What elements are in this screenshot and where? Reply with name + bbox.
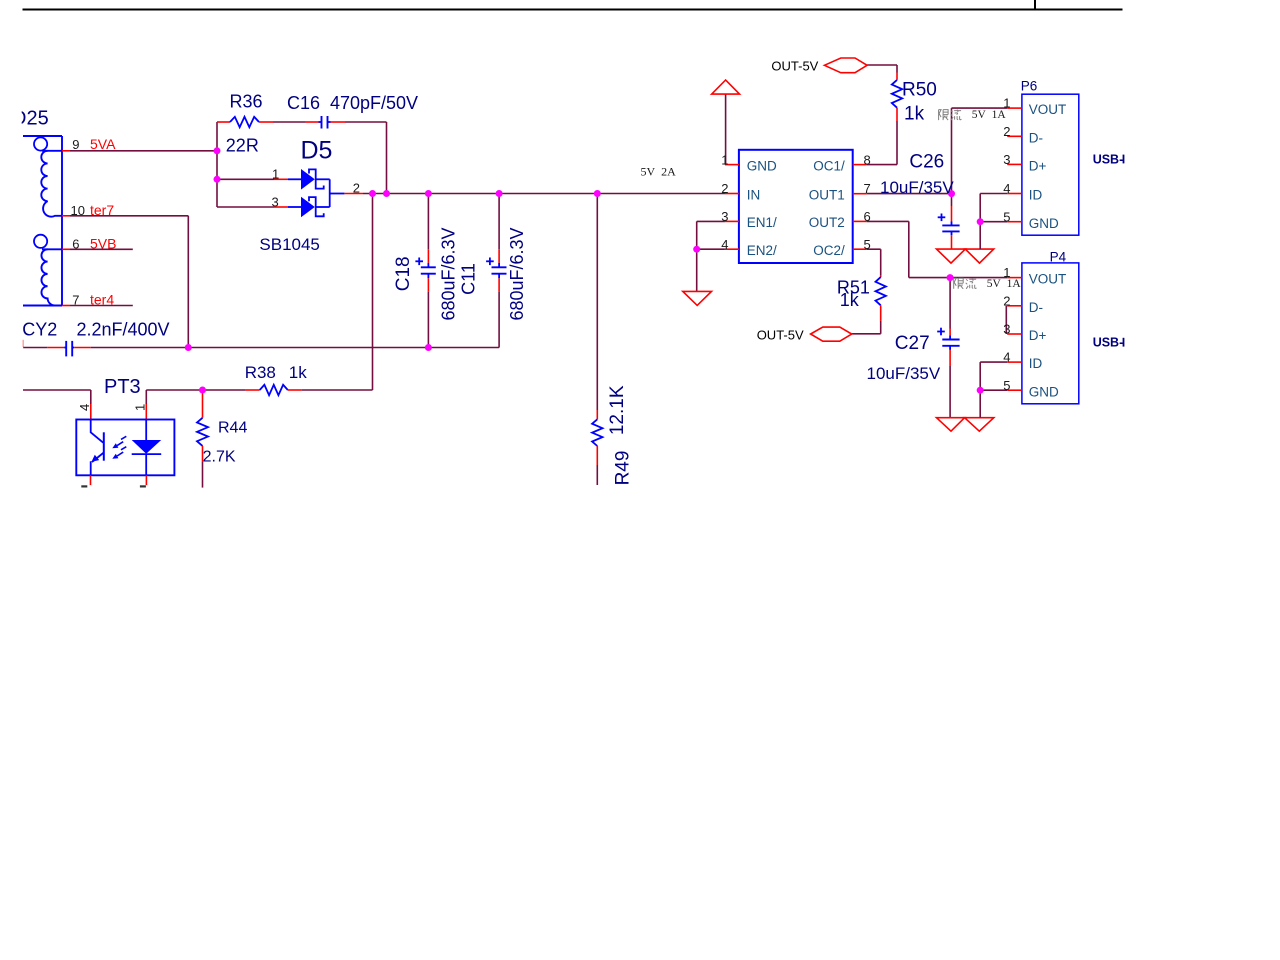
svg-text:P4: P4 (1050, 250, 1067, 265)
svg-text:D-: D- (1029, 300, 1043, 315)
svg-text:3: 3 (721, 209, 728, 224)
svg-text:OUT-5V: OUT-5V (771, 58, 818, 73)
svg-text:10uF/35V: 10uF/35V (880, 178, 954, 197)
svg-text:5VB: 5VB (90, 236, 116, 252)
svg-text:C16: C16 (287, 93, 320, 113)
svg-text:2.7K: 2.7K (203, 448, 236, 465)
svg-text:2: 2 (1003, 124, 1010, 139)
svg-text:2: 2 (1003, 293, 1010, 308)
svg-text:IN: IN (747, 188, 761, 203)
svg-text:VOUT: VOUT (1029, 102, 1067, 117)
svg-text:OC2/: OC2/ (813, 243, 845, 258)
svg-text:680uF/6.3V: 680uF/6.3V (507, 227, 527, 320)
svg-text:12.1K: 12.1K (607, 385, 628, 435)
svg-text:680uF/6.3V: 680uF/6.3V (439, 227, 459, 320)
svg-text:1k: 1k (904, 104, 925, 125)
svg-text:7: 7 (864, 181, 871, 196)
svg-text:R44: R44 (218, 420, 247, 437)
svg-text:GND: GND (747, 158, 777, 173)
svg-text:5: 5 (864, 237, 871, 252)
svg-text:1k: 1k (840, 290, 860, 310)
svg-text:1k: 1k (289, 363, 307, 382)
svg-text:OUT1: OUT1 (809, 188, 845, 203)
svg-text:D+: D+ (1029, 328, 1047, 343)
svg-text:5: 5 (1003, 378, 1010, 393)
svg-text:6: 6 (72, 236, 79, 251)
svg-text:OUT-5V: OUT-5V (757, 328, 804, 343)
svg-text:OUT2: OUT2 (809, 215, 845, 230)
svg-text:4: 4 (77, 404, 92, 411)
svg-text:VOUT: VOUT (1029, 271, 1067, 286)
svg-text:3: 3 (1003, 322, 1010, 337)
svg-text:P6: P6 (1021, 78, 1038, 93)
svg-text:22R: 22R (226, 136, 259, 156)
svg-text:USB-: USB- (1093, 152, 1124, 166)
svg-text:1: 1 (721, 152, 728, 167)
svg-text:5V 1A: 5V 1A (972, 109, 1007, 121)
svg-text:R38: R38 (245, 363, 276, 382)
svg-text:D+: D+ (1029, 159, 1047, 174)
svg-text:R36: R36 (230, 92, 263, 112)
svg-text:4: 4 (1003, 181, 1010, 196)
svg-text:C27: C27 (895, 333, 930, 354)
svg-text:2: 2 (721, 181, 728, 196)
svg-text:OC1/: OC1/ (813, 158, 845, 173)
svg-text:5V 2A: 5V 2A (641, 164, 677, 178)
svg-text:R50: R50 (902, 80, 937, 101)
svg-text:8: 8 (864, 152, 871, 167)
svg-text:3: 3 (1003, 152, 1010, 167)
svg-text:C26: C26 (909, 151, 944, 172)
svg-text:3: 3 (272, 194, 279, 209)
svg-text:2.2nF/400V: 2.2nF/400V (77, 320, 170, 340)
svg-text:7: 7 (72, 293, 79, 308)
svg-text:470pF/50V: 470pF/50V (330, 93, 418, 113)
svg-text:2: 2 (353, 180, 360, 195)
svg-text:SB1045: SB1045 (259, 235, 320, 254)
svg-text:EN1/: EN1/ (747, 215, 777, 230)
svg-text:5V 1A: 5V 1A (987, 278, 1022, 290)
svg-text:1: 1 (132, 404, 147, 411)
svg-text:9: 9 (72, 137, 79, 152)
svg-text:1: 1 (272, 167, 279, 182)
svg-text:10uF/35V: 10uF/35V (867, 364, 941, 383)
svg-text:GND: GND (1029, 384, 1059, 399)
svg-text:5: 5 (1003, 209, 1010, 224)
svg-text:ID: ID (1029, 188, 1043, 203)
svg-text:5VA: 5VA (90, 136, 116, 152)
svg-text:ter7: ter7 (90, 202, 114, 218)
svg-text:4: 4 (1003, 350, 1010, 365)
svg-text:CY2: CY2 (22, 320, 57, 340)
svg-text:ter4: ter4 (90, 292, 114, 308)
svg-text:D-: D- (1029, 130, 1043, 145)
svg-text:GND: GND (1029, 216, 1059, 231)
svg-text:D5: D5 (301, 137, 333, 165)
svg-text:C18: C18 (393, 256, 414, 291)
svg-text:6: 6 (864, 209, 871, 224)
svg-text:PT3: PT3 (104, 376, 141, 398)
svg-text:EN2/: EN2/ (747, 243, 777, 258)
svg-text:ID: ID (1029, 356, 1043, 371)
svg-text:10: 10 (71, 203, 85, 218)
svg-text:R49: R49 (612, 451, 633, 486)
svg-text:4: 4 (721, 237, 728, 252)
svg-text:USB-: USB- (1093, 336, 1124, 350)
svg-text:C11: C11 (459, 263, 479, 295)
